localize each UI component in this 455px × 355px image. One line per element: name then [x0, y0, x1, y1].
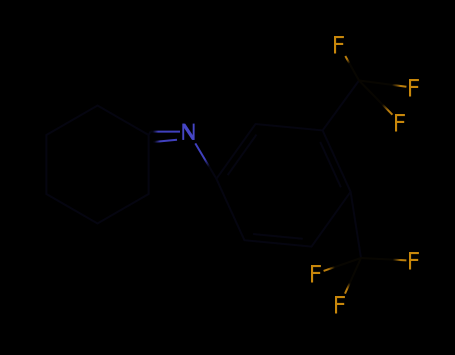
fluorine label F4 — [311, 265, 321, 283]
benzene ring (right) — [216, 124, 350, 247]
C=N imine double bond — [151, 131, 181, 133]
fluorine label F1 — [334, 36, 344, 54]
benzene/cyclohexane ring (left) — [46, 106, 148, 224]
fluorine label F6 — [335, 296, 345, 314]
CF3 bottom: C-F bonds — [324, 258, 361, 271]
CF3 top: C-F bonds — [345, 56, 359, 81]
nitrogen atom label N — [182, 124, 194, 140]
aromatic inner lines — [228, 135, 257, 176]
fluorine label F5 — [409, 252, 419, 270]
bond ring to CF3 (bottom) — [351, 192, 361, 258]
fluorine label F2 — [409, 79, 419, 97]
N-aryl single bond — [195, 143, 216, 178]
fluorine label F3 — [395, 114, 405, 132]
bond ring to CF3 (top) — [323, 81, 359, 131]
